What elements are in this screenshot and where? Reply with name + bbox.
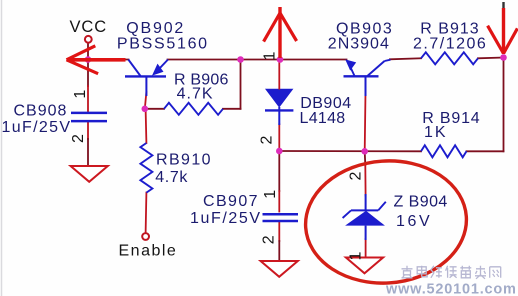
svg-text:RB910: RB910 — [156, 152, 212, 169]
svg-text:2: 2 — [70, 134, 87, 143]
svg-text:1K: 1K — [424, 124, 448, 141]
svg-text:4.7k: 4.7k — [155, 169, 188, 186]
svg-text:www.520101.com: www.520101.com — [385, 282, 517, 296]
svg-text:1uF/25V: 1uF/25V — [2, 119, 72, 136]
svg-text:L4148: L4148 — [300, 110, 346, 127]
svg-text:PBSS5160: PBSS5160 — [117, 36, 209, 53]
svg-text:1: 1 — [72, 90, 89, 99]
svg-text:2: 2 — [261, 235, 278, 244]
svg-text:16V: 16V — [396, 213, 432, 230]
svg-text:4.7K: 4.7K — [177, 86, 214, 103]
svg-text:CB908: CB908 — [14, 102, 68, 119]
svg-text:Enable: Enable — [119, 243, 178, 260]
svg-text:1: 1 — [348, 251, 365, 260]
svg-text:CB907: CB907 — [203, 193, 259, 210]
svg-text:2.7/1206: 2.7/1206 — [413, 36, 487, 53]
svg-text:2: 2 — [348, 171, 365, 180]
svg-text:1: 1 — [262, 51, 279, 60]
svg-text:QB902: QB902 — [126, 20, 185, 37]
svg-text:2: 2 — [259, 135, 276, 144]
svg-text:2N3904: 2N3904 — [328, 36, 390, 53]
svg-text:1uF/25V: 1uF/25V — [190, 210, 262, 227]
svg-text:VCC: VCC — [70, 18, 108, 36]
svg-text:1: 1 — [262, 190, 279, 199]
svg-text:Z B904: Z B904 — [394, 193, 448, 210]
